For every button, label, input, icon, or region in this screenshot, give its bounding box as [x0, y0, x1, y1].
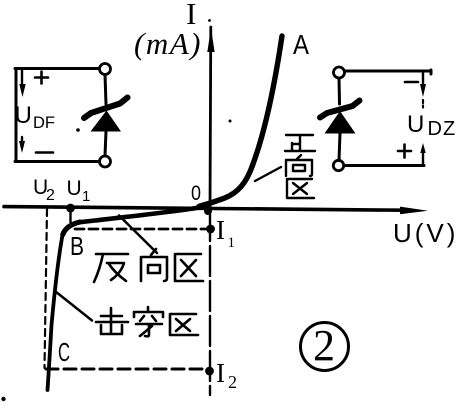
knee overdraw thick bend	[63, 222, 80, 235]
left circuit: bottom terminal circle	[100, 156, 111, 167]
right circuit: bottom measure arrow	[420, 143, 425, 165]
svg-text:DZ: DZ	[428, 118, 457, 140]
svg-text:U: U	[15, 102, 32, 129]
pointer line to forward region label	[255, 167, 281, 181]
I-V curve reverse branch	[78, 207, 206, 223]
left circuit: wire from diode to bottom terminal	[105, 131, 106, 156]
I-V curve forward branch	[199, 36, 282, 206]
svg-text:B: B	[70, 231, 84, 261]
char 区	[287, 179, 314, 198]
svg-text:0: 0	[191, 182, 201, 205]
svg-text:2: 2	[228, 372, 237, 392]
char 区	[170, 314, 198, 335]
noise speck right of I label	[208, 19, 211, 22]
left circuit: top current arrow	[19, 70, 25, 97]
right circuit: top terminal circle	[334, 67, 345, 78]
reverse region label 反向区	[94, 249, 203, 282]
svg-text:1: 1	[82, 188, 90, 205]
noise speck bottom left corner	[1, 397, 5, 401]
svg-text:I: I	[216, 358, 225, 388]
right circuit: bottom terminal circle	[333, 160, 343, 170]
svg-text:1: 1	[228, 235, 236, 251]
left circuit: top wire	[15, 67, 100, 70]
right circuit: wire diode to bottom terminal	[339, 133, 340, 161]
char 区	[175, 254, 203, 281]
dot at I2	[205, 367, 214, 376]
svg-text:I: I	[216, 215, 225, 245]
zener diode D1 cathode bar	[84, 98, 128, 119]
y-axis	[207, 27, 214, 209]
right circuit: plus sign	[398, 145, 411, 158]
dashed horizontal line at I1	[75, 228, 206, 231]
right circuit: bottom wire	[344, 164, 424, 167]
svg-text:(mA): (mA)	[134, 26, 202, 61]
char 击	[96, 308, 128, 334]
left circuit: bottom current arrow	[19, 137, 25, 153]
zener diode D2 cathode bar	[320, 101, 360, 118]
left circuit: minus sign	[36, 151, 53, 154]
noise speck near UDF	[76, 128, 80, 132]
pointer line to breakdown region label	[56, 292, 93, 321]
right circuit: top wire	[345, 70, 432, 74]
right circuit: top measure arrow	[420, 71, 426, 108]
dashed vertical line at U2	[45, 209, 48, 368]
char 向	[286, 155, 312, 176]
dot at U1 on axis	[66, 204, 75, 213]
left circuit: top terminal circle	[100, 64, 111, 75]
connector dot U1 to knee	[69, 208, 71, 222]
char 向	[141, 249, 167, 281]
char 反	[94, 254, 128, 282]
dashed axis extension below origin	[209, 211, 211, 395]
breakdown region label 击穿区	[96, 307, 198, 336]
left circuit: wire from top terminal to diode	[105, 75, 106, 105]
dot at origin	[204, 207, 212, 215]
forward region label 正向区 (vertical)	[285, 135, 315, 198]
I-V curve breakdown branch	[48, 223, 79, 391]
figure number circled 2	[301, 321, 349, 371]
svg-text:DF: DF	[33, 114, 55, 132]
left circuit: bottom wire	[15, 160, 99, 163]
svg-text:U: U	[67, 177, 82, 200]
left circuit: plus sign	[35, 72, 48, 84]
svg-text:C: C	[58, 337, 70, 367]
zener diode D1 anode triangle	[91, 111, 122, 132]
zener diode D2 anode triangle	[325, 111, 356, 134]
dot at I1	[206, 225, 215, 234]
svg-text:2: 2	[46, 187, 55, 204]
svg-text:A: A	[293, 29, 309, 60]
pointer line to reverse region label	[119, 216, 157, 254]
char 正	[285, 135, 315, 151]
x-axis	[4, 207, 428, 215]
svg-text:2: 2	[313, 321, 335, 370]
left circuit: left wire	[15, 69, 18, 162]
dashed horizontal line at I2	[46, 368, 205, 371]
char 穿	[134, 307, 163, 336]
svg-text:U: U	[407, 111, 424, 138]
svg-text:U(V): U(V)	[393, 218, 458, 248]
noise speck near curve	[229, 120, 232, 123]
right circuit: wire top terminal to diode	[338, 78, 342, 104]
right circuit: minus sign	[405, 81, 418, 84]
